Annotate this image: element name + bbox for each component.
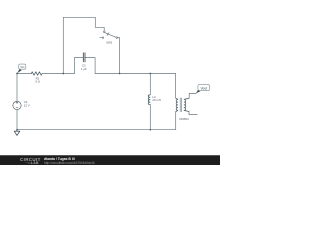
switch SW2: [100, 31, 118, 38]
core: [180, 98, 181, 112]
footer bar: [0, 155, 220, 166]
wire rail A left: [17, 73, 32, 75]
wire switch branch up-and-over: [63, 17, 104, 73]
node ground junction: [16, 129, 18, 131]
transformer XFMR4: [176, 98, 190, 112]
wire L2 top lead: [149, 74, 151, 95]
junction dots: [16, 73, 151, 131]
svg-text:Vin: Vin: [20, 65, 25, 69]
net flag Vout: [196, 85, 210, 94]
svg-text:Vout: Vout: [201, 86, 207, 90]
ground: [14, 131, 20, 135]
wire source top lead: [16, 74, 18, 102]
svg-text:6 Ω: 6 Ω: [35, 80, 40, 84]
footer url text: [44, 161, 95, 165]
svg-text:SW2: SW2: [106, 41, 113, 45]
wire C2 bump right leg: [86, 58, 96, 74]
svg-text:XFMR4: XFMR4: [179, 117, 189, 121]
secondary winding: [184, 98, 189, 111]
footer title text: [44, 157, 75, 161]
resistor R2: [31, 72, 42, 75]
wire L2 bottom lead: [149, 105, 151, 130]
labels: [24, 41, 189, 121]
net flag Vin: [17, 64, 26, 73]
voltage source V3: [13, 101, 21, 109]
wire rail A right of R2: [42, 73, 74, 75]
wire switch output to rail B: [118, 38, 120, 74]
svg-text:1 µF: 1 µF: [81, 67, 87, 71]
wire transformer primary bottom lead: [175, 112, 177, 130]
wire C2 bump left leg: [75, 58, 83, 74]
svg-text:20 mH: 20 mH: [152, 98, 160, 102]
node L2 bottom junction: [149, 129, 151, 131]
primary winding: [176, 98, 178, 111]
svg-text:12 V: 12 V: [24, 104, 30, 108]
node Vin junction: [16, 73, 18, 75]
wire transformer secondary bottom stub: [189, 112, 197, 115]
node switch-branch junction: [62, 73, 64, 75]
CircuitLab logo: [20, 157, 41, 162]
wire bottom rail: [17, 129, 176, 131]
inductor L2: [148, 95, 150, 105]
wire rail B: [95, 73, 176, 75]
node switch-return junction: [119, 73, 121, 75]
node L2 top junction: [149, 73, 151, 75]
wire source bottom lead: [16, 109, 18, 131]
capacitor C2: [83, 53, 85, 62]
wire transformer secondary top lead to Vout: [189, 93, 196, 98]
wire transformer primary top lead: [175, 74, 177, 99]
